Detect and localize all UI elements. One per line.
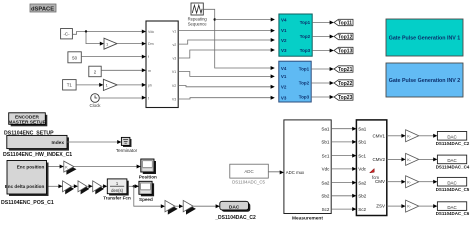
wire branch to gain1 bbox=[86, 32, 104, 46]
svg-text:V1: V1 bbox=[172, 70, 176, 74]
svg-text:Top1: Top1 bbox=[299, 67, 310, 72]
svg-text:DS1104DAC_C2: DS1104DAC_C2 bbox=[436, 141, 470, 146]
gain K6 (shadowed) bbox=[183, 200, 196, 214]
wire Top3 INV2 to tag bbox=[311, 95, 334, 99]
svg-text:Top13: Top13 bbox=[338, 48, 353, 54]
wire V1 to INV2 bbox=[178, 72, 275, 79]
wire Enc delta position to gain chain bbox=[49, 184, 63, 188]
svg-text:Top21: Top21 bbox=[338, 67, 353, 73]
svg-text:Sb2: Sb2 bbox=[321, 194, 330, 199]
svg-text:V3: V3 bbox=[281, 95, 287, 100]
svg-text:DS1104ENC_POS_C1: DS1104ENC_POS_C1 bbox=[1, 200, 54, 206]
wire Top1 INV1 to tag bbox=[312, 21, 334, 25]
svg-text:ZSV: ZSV bbox=[376, 204, 385, 209]
wire CMV to gain bbox=[387, 180, 406, 184]
svg-text:V4: V4 bbox=[281, 17, 287, 22]
transfer fcn block bbox=[103, 179, 131, 201]
terminator block bbox=[116, 137, 138, 153]
svg-text:Enc position: Enc position bbox=[17, 164, 45, 169]
encoder position block bbox=[5, 161, 49, 197]
svg-text:Sc2: Sc2 bbox=[322, 207, 330, 212]
wire K4 to transfer fcn bbox=[102, 184, 108, 188]
breakpoint marker on Vdc (red) bbox=[370, 169, 375, 173]
svg-text:v3: v3 bbox=[173, 57, 177, 61]
goto tag Top23 bbox=[334, 94, 353, 101]
svg-text:-C-: -C- bbox=[63, 32, 70, 37]
wire Sc2 bbox=[331, 207, 356, 211]
block INV1 gating (teal) bbox=[279, 14, 312, 56]
svg-text:MASTER SETUP: MASTER SETUP bbox=[8, 120, 46, 126]
svg-text:Top3: Top3 bbox=[300, 48, 311, 53]
svg-text:ENCODER: ENCODER bbox=[15, 114, 40, 120]
svg-text:ADC mux: ADC mux bbox=[286, 170, 305, 175]
ADC block bbox=[230, 164, 268, 184]
gain G2 bbox=[103, 79, 117, 90]
constant T1 bbox=[63, 80, 77, 90]
svg-text:DAC: DAC bbox=[447, 180, 456, 185]
encoder HW index block bbox=[7, 135, 69, 150]
svg-text:Sa1: Sa1 bbox=[358, 126, 367, 131]
DAC C2 bbox=[436, 132, 470, 146]
wire clock to subsystem t bbox=[99, 96, 146, 100]
goto tag Top22 bbox=[334, 80, 353, 87]
gain K4 (shadowed) bbox=[93, 181, 104, 195]
wire T1 to gain2 bbox=[76, 83, 103, 87]
subsystem U1 three-phase reference generator bbox=[146, 21, 178, 108]
svg-text:Sa2: Sa2 bbox=[358, 180, 367, 185]
svg-text:DS1104DAC_C4: DS1104DAC_C4 bbox=[436, 165, 470, 170]
svg-text:v1: v1 bbox=[173, 29, 177, 33]
svg-text:t: t bbox=[148, 96, 149, 100]
svg-text:Sa2: Sa2 bbox=[321, 180, 330, 185]
svg-text:Vdc: Vdc bbox=[148, 30, 154, 34]
constant 2 bbox=[89, 66, 101, 77]
gain K5 (shadowed) bbox=[165, 200, 178, 214]
DAC C5 bbox=[436, 177, 470, 191]
svg-text:Top23: Top23 bbox=[338, 95, 353, 101]
wire Sa2 bbox=[331, 181, 356, 185]
svg-text:V1: V1 bbox=[281, 74, 287, 79]
wire K5 to K6 bbox=[175, 204, 183, 208]
constant 50 bbox=[68, 52, 81, 63]
wire Sc1 bbox=[331, 154, 356, 158]
svg-text:T1: T1 bbox=[67, 83, 73, 88]
wire ZSV to gain bbox=[387, 204, 406, 208]
svg-text:V2: V2 bbox=[281, 38, 287, 43]
goto tag Top13 bbox=[334, 47, 353, 54]
svg-text:Transfer Fcn: Transfer Fcn bbox=[103, 195, 131, 200]
wire Top2 INV1 to tag bbox=[312, 35, 334, 39]
repeating sequence block bbox=[188, 3, 208, 26]
svg-text:V4: V4 bbox=[281, 66, 287, 71]
svg-text:Sb1: Sb1 bbox=[358, 140, 367, 145]
svg-text:Terminator: Terminator bbox=[116, 148, 138, 153]
svg-text:V3: V3 bbox=[281, 48, 287, 53]
annotation box Gate Pulse Generation INV 2 bbox=[386, 63, 463, 97]
svg-text:DS1104ADC_C5: DS1104ADC_C5 bbox=[232, 179, 265, 184]
gain K2 (shadowed) bbox=[63, 181, 74, 195]
scope Position bbox=[139, 159, 157, 180]
wire Sb1 bbox=[331, 140, 356, 144]
wire V2 to INV2 bbox=[178, 85, 275, 89]
svg-text:dSPACE: dSPACE bbox=[31, 7, 54, 13]
wire ADC to measurement bbox=[268, 170, 284, 174]
junction node bbox=[85, 30, 87, 32]
wire Top1 INV2 to tag bbox=[311, 67, 334, 71]
svg-text:Sa1: Sa1 bbox=[321, 126, 330, 131]
toolbar badge top-left bbox=[30, 4, 56, 13]
wire transfer fcn to speed scope bbox=[129, 184, 139, 188]
junction node rep-seq bbox=[214, 18, 216, 20]
svg-text:CMV2: CMV2 bbox=[372, 157, 385, 162]
wire Top2 INV2 to tag bbox=[311, 81, 334, 85]
wire 2 to subsystem m bbox=[101, 68, 146, 72]
svg-text:ADC: ADC bbox=[244, 169, 253, 174]
svg-text:m: m bbox=[148, 69, 151, 73]
svg-text:Sequence: Sequence bbox=[188, 21, 208, 26]
svg-text:V1: V1 bbox=[281, 28, 287, 33]
wire branch to INV1 V4 bbox=[215, 18, 275, 22]
svg-text:Top1: Top1 bbox=[300, 20, 311, 25]
svg-text:CMV1: CMV1 bbox=[372, 133, 385, 138]
DAC C6 bbox=[436, 202, 470, 216]
svg-text:Sc1: Sc1 bbox=[322, 153, 330, 158]
svg-text:Top2: Top2 bbox=[300, 34, 311, 39]
svg-text:Clock: Clock bbox=[90, 103, 102, 108]
svg-text:DS1104DAC_C6: DS1104DAC_C6 bbox=[436, 211, 470, 216]
fcm subsystem bbox=[356, 120, 386, 216]
svg-text:Gate Pulse Generation INV 1: Gate Pulse Generation INV 1 bbox=[389, 36, 461, 42]
svg-text:Sb1: Sb1 bbox=[321, 140, 330, 145]
DAC block bottom bbox=[220, 201, 251, 211]
goto tag Top11 bbox=[334, 19, 353, 26]
svg-text:V3: V3 bbox=[172, 98, 176, 102]
svg-text:DAC: DAC bbox=[229, 204, 240, 210]
wire CMV1 to gain bbox=[387, 134, 406, 138]
wire Sa1 bbox=[331, 127, 356, 131]
wire -C- to subsystem Vdc bbox=[72, 30, 146, 35]
wire Vdc bbox=[331, 167, 356, 171]
measurement subsystem bbox=[284, 120, 331, 222]
svg-text:Top3: Top3 bbox=[299, 94, 310, 99]
svg-text:Top22: Top22 bbox=[338, 81, 353, 87]
wire K2 to K3 bbox=[71, 184, 78, 188]
svg-text:Top12: Top12 bbox=[338, 34, 353, 40]
scope Speed bbox=[139, 181, 154, 202]
wire v2 to INV1 bbox=[178, 38, 275, 44]
encoder master setup block bbox=[8, 113, 47, 127]
wire gain to DAC C4 bbox=[419, 157, 438, 161]
wire gain to DAC C6 bbox=[419, 204, 438, 208]
svg-text:_DS1104DAC_C2: _DS1104DAC_C2 bbox=[214, 215, 256, 221]
wire Enc position to gain K1 bbox=[49, 165, 64, 169]
wire K6 to DAC1 bbox=[193, 204, 220, 208]
annotation box Gate Pulse Generation INV 1 bbox=[386, 19, 463, 56]
svg-text:f: f bbox=[148, 55, 149, 59]
wire CMV2 to gain bbox=[387, 157, 406, 161]
gain K-3 bbox=[406, 176, 419, 188]
block INV2 gating (blue) bbox=[279, 61, 311, 102]
svg-text:DAC: DAC bbox=[447, 205, 456, 210]
wire gain1 to subsystem bbox=[117, 42, 146, 46]
svg-text:Speed: Speed bbox=[139, 197, 153, 202]
wire v1 to INV1 bbox=[178, 29, 275, 33]
gain K3 (shadowed) bbox=[78, 181, 89, 195]
svg-text:Sc1: Sc1 bbox=[358, 153, 366, 158]
svg-text:V2: V2 bbox=[281, 85, 287, 90]
wire gain2 to subsystem ph bbox=[117, 83, 146, 87]
goto tag Top21 bbox=[334, 66, 353, 73]
wire Index to terminator bbox=[67, 140, 121, 144]
wire Top3 INV1 to tag bbox=[312, 49, 334, 53]
wire gain to DAC C2 bbox=[419, 134, 438, 138]
wire 50 to subsystem f bbox=[81, 55, 146, 59]
svg-text:Dm: Dm bbox=[148, 42, 154, 46]
wire gain to DAC C5 bbox=[419, 180, 438, 184]
svg-text:den(s): den(s) bbox=[111, 188, 123, 193]
svg-text:Vdc: Vdc bbox=[322, 167, 331, 172]
svg-text:Measurement: Measurement bbox=[292, 216, 323, 222]
wire Sb2 bbox=[331, 194, 356, 198]
wire K3 to K4 bbox=[87, 184, 93, 188]
svg-text:Sb2: Sb2 bbox=[358, 194, 367, 199]
svg-text:ph: ph bbox=[148, 84, 152, 88]
gain K-4 bbox=[406, 200, 419, 212]
svg-text:V2: V2 bbox=[172, 84, 176, 88]
svg-text:Vdc: Vdc bbox=[358, 167, 367, 172]
gain K-1 bbox=[406, 130, 419, 142]
svg-text:Top11: Top11 bbox=[338, 20, 352, 26]
wire gain K1 to position scope bbox=[74, 165, 141, 169]
wire branch down to gain K5 bbox=[134, 186, 165, 208]
svg-text:Index: Index bbox=[51, 140, 64, 146]
gain G1 bbox=[104, 38, 117, 49]
gain K-2 bbox=[406, 153, 419, 165]
constant block -C- bbox=[61, 29, 73, 39]
svg-text:Sc2: Sc2 bbox=[358, 207, 366, 212]
gain K1 (shadowed) bbox=[64, 161, 77, 175]
svg-text:Top2: Top2 bbox=[299, 80, 310, 85]
svg-text:Enc delta position: Enc delta position bbox=[5, 184, 45, 189]
svg-text:50: 50 bbox=[72, 55, 77, 60]
svg-text:CMV: CMV bbox=[375, 179, 385, 184]
wire repeating sequence trunk bbox=[203, 9, 274, 70]
clock bbox=[90, 94, 102, 109]
junction node speed branch bbox=[133, 185, 135, 187]
DAC C4 bbox=[436, 155, 470, 169]
svg-text:DS1104ENC_HW_INDEX_C1: DS1104ENC_HW_INDEX_C1 bbox=[3, 152, 72, 158]
svg-text:v2: v2 bbox=[173, 43, 177, 47]
svg-text:DAC: DAC bbox=[447, 158, 456, 163]
wire V3 to INV2 bbox=[178, 96, 275, 100]
svg-text:Gate Pulse Generation INV 2: Gate Pulse Generation INV 2 bbox=[389, 78, 461, 84]
wire v3 to INV1 bbox=[178, 48, 275, 58]
svg-text:Position: Position bbox=[139, 175, 157, 180]
svg-text:DS1104DAC_C5: DS1104DAC_C5 bbox=[436, 187, 470, 192]
goto tag Top12 bbox=[334, 33, 353, 40]
svg-text:DAC: DAC bbox=[447, 135, 456, 140]
